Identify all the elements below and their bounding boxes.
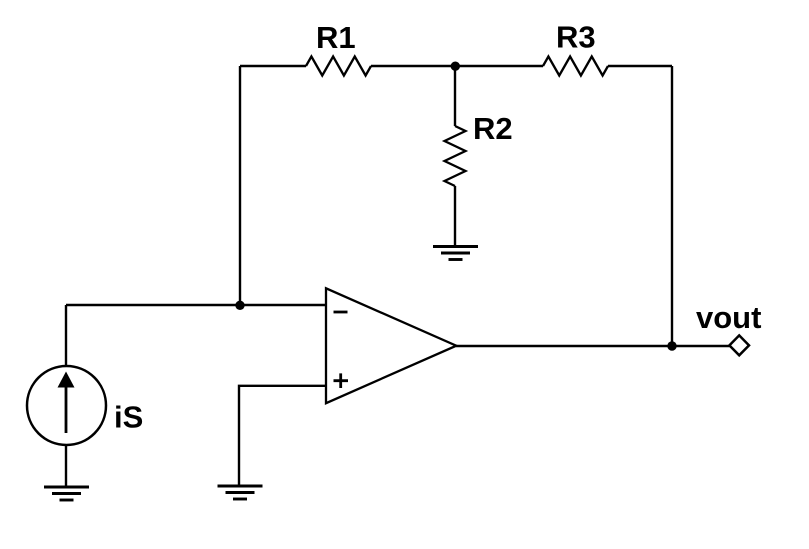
wire op-amp output — [456, 345, 730, 347]
resistor R2 — [445, 66, 513, 247]
svg-text:R3: R3 — [556, 20, 596, 55]
wire R3 to top right corner — [608, 65, 672, 67]
node A junction dot — [451, 61, 460, 70]
wire right vertical — [671, 66, 673, 346]
node B junction dot — [235, 301, 244, 310]
resistor R1 — [306, 20, 371, 76]
ground under current source — [44, 487, 89, 500]
wire top left horizontal — [240, 65, 306, 67]
ground under non-inverting input — [218, 486, 263, 499]
node C output junction dot — [667, 341, 676, 350]
svg-text:iS: iS — [114, 399, 143, 434]
terminal vout — [696, 300, 761, 355]
wire R1 to node A — [371, 65, 455, 67]
wire current source to ground — [65, 445, 67, 487]
wire non-inverting input — [239, 386, 326, 486]
current source iS — [27, 305, 143, 445]
wire left vertical feedback — [239, 66, 241, 305]
resistor R3 — [543, 20, 608, 76]
wire inverting input — [66, 304, 326, 306]
svg-text:R2: R2 — [473, 111, 513, 146]
svg-text:R1: R1 — [316, 20, 356, 55]
op-amp U1 — [326, 288, 456, 403]
wire node A to R3 — [455, 65, 543, 67]
ground under R2 — [433, 247, 478, 260]
svg-text:vout: vout — [696, 300, 761, 335]
